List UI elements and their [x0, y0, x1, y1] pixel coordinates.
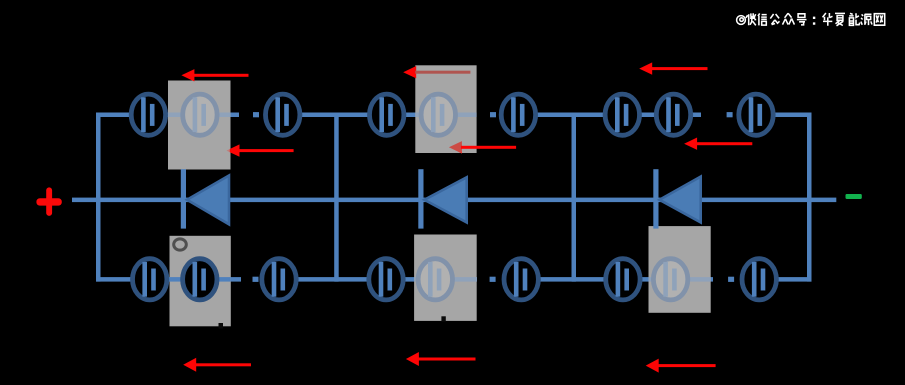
PV cell bottom C3': [742, 259, 776, 300]
PV cell top B2 (shaded): [421, 94, 455, 135]
bright wire through bottom box 1 (cell drawn over box): [170, 277, 231, 282]
glyph gong: [770, 14, 779, 25]
PV cell top A1: [131, 94, 165, 135]
PV cell top C2: [656, 94, 690, 135]
glyph yuan: [861, 14, 872, 25]
PV cell top A3: [266, 94, 300, 135]
current arrow below bottom box 2: [406, 352, 419, 366]
glyph neng: [849, 13, 859, 25]
shading box over bottom cell A2: [170, 236, 231, 326]
PV cell top C1: [605, 94, 639, 135]
main bus wire (+ to -): [72, 198, 836, 203]
PV cell bottom B2' (shaded): [418, 259, 452, 300]
PV cell bottom A2' (in box): [183, 259, 217, 300]
middle vertical rail 1: [334, 113, 339, 282]
ellipsis dot bottom string 1: [253, 277, 259, 282]
current arrow below bottom box 1: [183, 358, 196, 372]
washed wire through bottom box 2: [414, 277, 477, 282]
glyph xia: [835, 13, 845, 25]
shading box over top cell B2: [415, 65, 476, 153]
tick under bottom box 2: [441, 316, 445, 321]
glyph @: [737, 16, 746, 25]
middle vertical rail 2: [572, 113, 577, 282]
wire: bottom string 2 after gap: [503, 277, 576, 282]
wire: top string 3: [572, 113, 701, 118]
ellipsis dot top string 2: [490, 112, 496, 117]
glyph colon: [813, 17, 815, 25]
washed wire through top box 2: [415, 113, 476, 118]
current arrow mid string 3: [684, 138, 697, 150]
PV cell bottom C2' (shaded): [653, 259, 687, 300]
PV cell top B1: [370, 94, 404, 135]
shading box over top cell A2: [168, 81, 231, 170]
tick under bottom box 1: [219, 323, 224, 329]
PV cell bottom B3': [504, 259, 538, 300]
ellipsis dot top string 1: [253, 112, 259, 117]
bypass diode D1: [181, 169, 186, 228]
current arrow above top string 3: [639, 62, 652, 74]
washed wire through top box 1: [168, 113, 231, 118]
minus terminal: [846, 194, 862, 199]
glyph wei: [746, 13, 756, 25]
current arrow above top box 1: [181, 69, 194, 81]
shading box over bottom cell C2: [649, 226, 711, 313]
bypass diode D2: [418, 169, 423, 228]
current arrow into top box 2 (washed under box): [449, 141, 462, 153]
plus terminal: [36, 187, 61, 216]
current arrow below bottom box 3: [646, 359, 659, 373]
bypass diode D3: [653, 169, 658, 228]
wire: bottom string 3 after gap: [741, 277, 812, 282]
right vertical rail: [807, 113, 812, 282]
glyph wang: [874, 14, 884, 26]
PV cell top A2 (shaded): [183, 94, 217, 135]
left vertical rail: [96, 113, 101, 282]
current arrow above top box 2 (shaft muted under box): [403, 66, 416, 78]
wire: top string 3 after gap: [737, 113, 812, 118]
wire: top string 2: [335, 113, 476, 118]
stray 'o' glyph near bottom box 1: [174, 239, 187, 250]
glyph zhong: [783, 13, 795, 24]
wire: top string 1 after gap: [265, 113, 339, 118]
PV cell bottom C1': [606, 259, 640, 300]
PV cell top B3: [501, 94, 535, 135]
wire: bottom string 1 after gap: [262, 277, 339, 282]
glyph xin: [758, 13, 767, 25]
wire: bottom string 3: [572, 277, 713, 282]
PV cell top C3: [739, 94, 773, 135]
wire: bottom string 2: [335, 277, 478, 282]
ellipsis dot top string 3: [727, 112, 733, 117]
PV cell bottom B1': [369, 259, 403, 300]
PV cell bottom A3': [262, 259, 296, 300]
wire: top string 1: [96, 113, 239, 118]
shading box over bottom cell B2: [414, 235, 477, 321]
wire: top string 2 after gap: [500, 113, 576, 118]
watermark text: @WeChat public account: HuaXia Energy Net: [737, 13, 885, 26]
washed wire through bottom box 3: [649, 277, 711, 282]
current arrow into top box 1 (tip washed under box): [227, 149, 230, 152]
glyph hua: [823, 13, 833, 26]
PV cell bottom A1': [133, 259, 167, 300]
glyph hao: [797, 14, 807, 25]
ellipsis dot bottom string 3: [728, 277, 734, 282]
wire: bottom string 1: [96, 277, 241, 282]
ellipsis dot bottom string 2: [490, 277, 496, 282]
